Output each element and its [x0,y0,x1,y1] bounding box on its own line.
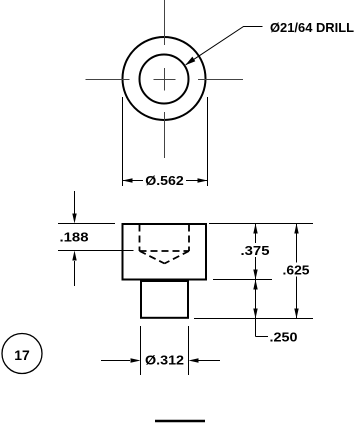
.625 dimension line upper segment with arrow [296,224,298,263]
vertical centerline bottom segment [164,112,166,158]
dia .562 right extension line [207,97,209,186]
svg-text:.250: .250 [270,331,298,345]
.375 dimension line upper segment with arrow [255,224,257,244]
hidden drill point V left dashed line [140,251,165,264]
right bottom extension line [194,318,313,320]
dia .562 dimension line right segment with arrow [186,180,208,182]
vertical centerline top segment [164,0,166,45]
svg-text:Ø.312: Ø.312 [145,354,184,368]
horizontal centerline left segment [86,79,130,81]
dia .312 left extension line [140,326,142,375]
vertical centerline center-cross arm [164,68,166,91]
svg-text:Ø21/64 DRILL: Ø21/64 DRILL [270,21,354,35]
right middle extension line [213,279,272,281]
bottom thick mark [155,420,205,423]
.250 leader elbow [256,336,269,338]
hidden hole left vertical dashed line [139,225,141,252]
hidden hole bottom horizontal dashed line [140,250,190,252]
.188 top extension line [58,223,115,225]
.625 dimension line lower segment with arrow [296,277,298,319]
dia .562 dimension line left segment with arrow [123,180,144,182]
horizontal centerline center-cross arm [154,79,176,81]
top view outer circle [123,37,206,120]
.188 bottom extension line (to hidden hole depth) [58,250,134,252]
dia .562 left extension line [122,97,124,186]
front view stem rectangle [141,281,188,318]
hidden hole right vertical dashed line [188,225,190,252]
hidden drill point V right dashed line [165,251,190,264]
front view body rectangle [123,224,207,280]
svg-text:.375: .375 [241,244,270,258]
svg-text:Ø.562: Ø.562 [145,174,184,188]
leader line to drill note [186,27,263,65]
dia .312 right dimension tail with arrow [198,360,220,362]
dia .312 right extension line [188,326,190,375]
top view inner drill circle [140,55,189,104]
dia .312 left dimension tail with arrow [101,360,130,362]
right top extension line [209,223,313,225]
balloon circle item 17 [2,334,42,374]
svg-text:.188: .188 [60,231,89,245]
horizontal centerline right segment [198,79,243,81]
.250 dimension line with arrows [255,280,257,337]
.188 top arrow [74,191,76,214]
svg-text:17: 17 [14,348,30,363]
.188 bottom arrow [74,261,76,286]
.375 dimension line lower segment with arrow [255,257,257,280]
svg-text:.625: .625 [283,264,310,278]
leader arrowhead [185,57,195,66]
